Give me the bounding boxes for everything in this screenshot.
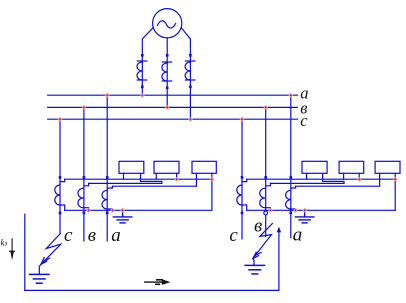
wire: feeder1 relay KA1 return xyxy=(141,181,162,183)
wire: feeder1 phase c drop xyxy=(59,119,61,233)
junction: bus a / feeder2 tap xyxy=(288,93,293,98)
junction: bus b / generator xyxy=(165,105,170,110)
junction: bus b / feeder1 tap xyxy=(82,105,87,110)
wire: feeder2 phase c drop xyxy=(241,119,243,239)
relay KA2 (feeder1) xyxy=(154,161,179,179)
wire: feeder2 relay KA4 return xyxy=(323,181,344,183)
wire: feeder1 relay return drop xyxy=(211,179,213,210)
junction: feeder1 KA2 return xyxy=(174,177,179,182)
wire: feeder1 CT-a output xyxy=(112,185,196,187)
wire: earth return bottom xyxy=(25,289,279,291)
ground: feeder2 fault xyxy=(245,265,264,274)
junction: feeder1 common / CT-b xyxy=(86,208,91,213)
generator winding phase a xyxy=(137,54,147,88)
junction: feeder2 common / ground xyxy=(302,208,307,213)
wire: feeder2 CT-b output xyxy=(270,182,344,184)
junction: bus c / feeder1 tap xyxy=(58,117,63,122)
generator G xyxy=(153,9,182,38)
junction: bus b / feeder2 tap xyxy=(263,105,268,110)
junction: feeder1 KA3 return xyxy=(210,177,215,182)
relay KA5 (feeder2) xyxy=(339,161,364,179)
svg-text:с: с xyxy=(300,111,308,130)
bus c xyxy=(48,118,298,120)
wire: feeder2 relay return drop xyxy=(394,179,396,210)
wire: earth return left side xyxy=(24,214,26,290)
CT TA1 phase b (feeder1) xyxy=(78,176,89,214)
ground: feeder1 CT star point xyxy=(113,210,131,223)
bus a xyxy=(48,94,298,96)
generator winding phase b xyxy=(162,54,172,89)
junction: bus c / generator xyxy=(188,117,193,122)
junction: feeder2 common / CT-b xyxy=(268,208,273,213)
ground: feeder2 CT star point xyxy=(295,210,313,223)
fault bolt on feeder1 phase c xyxy=(39,234,60,274)
svg-text:в: в xyxy=(254,216,262,237)
CT TA2 phase b (feeder2) xyxy=(260,176,271,215)
wire: feeder1 CT-c output to relays xyxy=(65,178,212,180)
svg-text:а: а xyxy=(111,225,121,246)
junction: bus c / feeder2 tap xyxy=(240,117,245,122)
wire: generator lead phase b xyxy=(166,38,168,108)
wire: generator lead phase a xyxy=(142,28,153,96)
wire: feeder1 phase b drop xyxy=(83,107,85,241)
svg-text:с: с xyxy=(64,225,73,246)
CT TA1 phase a (feeder1) xyxy=(102,176,112,214)
wire: feeder2 phase a drop xyxy=(290,95,292,238)
junction: feeder2 KA5 return xyxy=(357,177,362,182)
svg-text:в: в xyxy=(88,225,96,246)
relay KA6 (feeder2) xyxy=(375,161,400,186)
wire: earth return right riser with arrow xyxy=(277,227,281,291)
junction: feeder1 common / CT-a xyxy=(110,208,115,213)
wire: feeder1 phase a drop xyxy=(106,95,108,241)
svg-text:kз: kз xyxy=(1,238,8,248)
arrow: earth current direction (right) xyxy=(145,279,171,285)
CT TA1 phase c (feeder1) xyxy=(55,176,65,214)
ground: feeder1 fault xyxy=(30,274,49,283)
junction: feeder1 common / ground xyxy=(120,208,125,213)
junction: feeder2 KA6 return xyxy=(393,177,398,182)
relay KA1 (feeder1) xyxy=(119,161,144,181)
arrow: fault current direction (down) xyxy=(10,239,15,260)
relay KA4 (feeder2) xyxy=(302,161,327,181)
generator winding phase c xyxy=(185,54,195,88)
wire: feeder2 CT-a output xyxy=(296,185,380,187)
bus b xyxy=(48,106,298,108)
relay KA3 (feeder1) xyxy=(192,161,216,186)
svg-text:а: а xyxy=(293,224,303,245)
wire: feeder2 CT common return xyxy=(247,209,396,211)
svg-text:с: с xyxy=(229,225,238,246)
wire: feeder1 CT-b output xyxy=(89,182,162,184)
junction: bus a / generator xyxy=(140,93,145,98)
wire: generator lead phase c xyxy=(181,28,190,120)
junction: feeder2 common / CT-a xyxy=(293,208,298,213)
CT TA2 phase a (feeder2) xyxy=(286,176,296,214)
fault bolt on feeder2 phase b xyxy=(253,224,273,266)
wire: feeder2 CT-c output to relays xyxy=(247,178,396,180)
CT TA2 phase c (feeder2) xyxy=(237,176,247,214)
wire: feeder2 phase b drop xyxy=(265,107,267,236)
wire: feeder1 CT common return xyxy=(65,209,212,211)
junction: bus a / feeder1 tap xyxy=(58,93,398,213)
